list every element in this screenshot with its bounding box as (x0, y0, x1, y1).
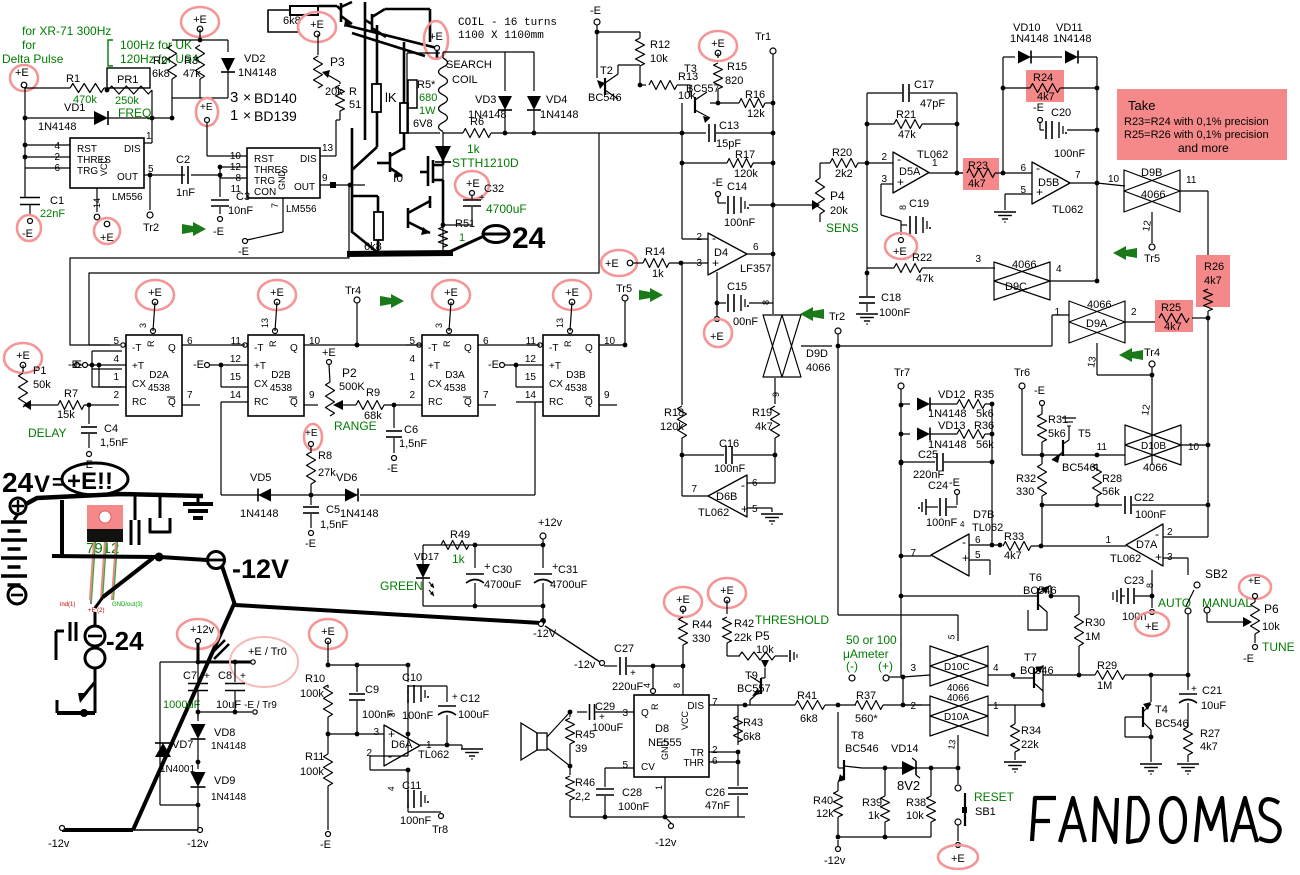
svg-text:1M: 1M (1085, 631, 1100, 643)
svg-text:-E: -E (590, 5, 601, 17)
svg-text:R40: R40 (813, 795, 833, 807)
svg-text:C10: C10 (402, 672, 422, 684)
svg-text:R34: R34 (1021, 725, 1041, 737)
svg-text:VD7: VD7 (172, 739, 193, 751)
svg-text:27k: 27k (318, 467, 336, 479)
svg-text:VD8: VD8 (214, 727, 235, 739)
svg-text:+E: +E (310, 19, 324, 31)
svg-text:C19: C19 (909, 198, 929, 210)
svg-text:7: 7 (712, 697, 718, 708)
svg-text:330: 330 (692, 633, 710, 645)
svg-text:Q: Q (290, 343, 298, 354)
svg-text:1nF: 1nF (176, 187, 195, 199)
svg-text:4: 4 (1056, 264, 1062, 275)
svg-text:1,5nF: 1,5nF (399, 438, 427, 450)
svg-text:-12V: -12V (232, 554, 289, 584)
svg-text:R: R (442, 340, 452, 347)
svg-text:+: + (452, 692, 458, 703)
svg-text:TRG: TRG (254, 176, 275, 187)
svg-text:2: 2 (1167, 527, 1173, 538)
svg-text:TL062: TL062 (698, 507, 729, 519)
svg-text:Q: Q (464, 343, 472, 354)
svg-text:Tr6: Tr6 (1014, 367, 1030, 379)
svg-text:Tr4: Tr4 (345, 285, 361, 297)
svg-text:12: 12 (525, 354, 537, 365)
svg-text:R8: R8 (318, 450, 332, 462)
svg-text:47nF: 47nF (705, 800, 730, 812)
svg-text:4066: 4066 (1012, 259, 1036, 271)
svg-text:4: 4 (54, 141, 60, 152)
svg-text:9: 9 (771, 392, 781, 397)
svg-text:12k: 12k (747, 108, 765, 120)
svg-text:+E: +E (270, 287, 284, 299)
svg-text:P6: P6 (1264, 602, 1279, 616)
svg-text:4538: 4538 (270, 383, 293, 394)
svg-text:1: 1 (146, 131, 152, 142)
svg-text:+E: +E (466, 178, 480, 190)
svg-text:D5B: D5B (1038, 177, 1059, 189)
svg-text:+E: +E (305, 428, 318, 439)
svg-text:SB2: SB2 (1205, 567, 1228, 581)
svg-text:1W: 1W (419, 105, 436, 117)
svg-text:100nF: 100nF (1135, 509, 1166, 521)
svg-text:1M: 1M (1097, 680, 1112, 692)
svg-text:R1: R1 (66, 73, 80, 85)
svg-text:+E: +E (444, 287, 458, 299)
svg-text:lK: lK (385, 90, 397, 105)
svg-text:120k: 120k (734, 168, 758, 180)
svg-text:100nF: 100nF (1054, 148, 1085, 160)
svg-text:T6: T6 (1029, 572, 1042, 584)
svg-text:-E: -E (712, 177, 723, 189)
svg-text:CX: CX (254, 379, 268, 390)
svg-text:+E / Tr0: +E / Tr0 (248, 646, 287, 658)
svg-text:D6B: D6B (716, 491, 737, 503)
svg-text:+E: +E (676, 594, 690, 606)
svg-text:TRG: TRG (77, 166, 98, 177)
svg-text:15: 15 (230, 372, 242, 383)
svg-text:4k7: 4k7 (1200, 741, 1218, 753)
svg-text:RC: RC (254, 397, 268, 408)
svg-text:-12v: -12v (48, 838, 70, 850)
svg-text:-12v: -12v (187, 838, 209, 850)
svg-text:1: 1 (1105, 535, 1111, 546)
svg-text:1k: 1k (452, 552, 466, 566)
svg-text:13: 13 (322, 143, 334, 154)
svg-text:Tr5: Tr5 (616, 283, 632, 295)
svg-text:8: 8 (672, 683, 682, 688)
svg-text:-E: -E (387, 463, 398, 475)
svg-text:4: 4 (642, 683, 652, 688)
svg-text:+12v: +12v (190, 624, 215, 636)
svg-text:VD13: VD13 (938, 420, 966, 432)
svg-text:VD1: VD1 (64, 102, 85, 114)
svg-text:00nF: 00nF (733, 316, 758, 328)
svg-text:+: + (240, 671, 246, 682)
svg-text:6k8: 6k8 (152, 68, 170, 80)
svg-text:BC546: BC546 (1062, 462, 1096, 474)
svg-text:+: + (1191, 684, 1197, 695)
svg-text:100nF: 100nF (714, 463, 745, 475)
svg-text:4700uF: 4700uF (550, 579, 588, 591)
svg-text:3: 3 (434, 323, 444, 328)
svg-text:P3: P3 (330, 55, 345, 69)
svg-text:R22: R22 (912, 252, 932, 264)
svg-text:THR: THR (683, 758, 704, 769)
svg-text:LM556: LM556 (286, 204, 317, 215)
svg-text:1,5nF: 1,5nF (320, 519, 348, 531)
svg-text:10: 10 (1188, 442, 1200, 453)
svg-text:R12: R12 (650, 39, 670, 51)
svg-text:×: × (243, 107, 251, 123)
svg-text:-E: -E (1034, 385, 1045, 397)
svg-text:CX: CX (549, 379, 563, 390)
svg-text:VD2: VD2 (244, 53, 265, 65)
svg-text:11: 11 (231, 184, 242, 195)
svg-text:10k: 10k (1262, 621, 1280, 633)
svg-text:100nF: 100nF (402, 710, 433, 722)
svg-text:-12v: -12v (655, 837, 677, 849)
svg-text:6: 6 (1020, 163, 1026, 174)
svg-text:-E / Tr9: -E / Tr9 (244, 700, 277, 711)
svg-text:22nF: 22nF (40, 208, 65, 220)
svg-text:1k: 1k (868, 810, 880, 822)
svg-text:C27: C27 (614, 643, 634, 655)
svg-text:Q: Q (290, 397, 298, 408)
svg-text:C25: C25 (918, 449, 938, 461)
svg-text:4066: 4066 (947, 693, 970, 704)
svg-text:4538: 4538 (148, 383, 171, 394)
svg-text:(-): (-) (846, 659, 858, 673)
svg-text:DIS: DIS (300, 154, 317, 165)
svg-text:R: R (650, 703, 660, 710)
svg-text:100k: 100k (300, 688, 324, 700)
svg-text:C32: C32 (484, 183, 504, 195)
svg-text:-T: -T (132, 343, 141, 354)
svg-text:1000uF: 1000uF (163, 699, 201, 711)
svg-text:COIL: COIL (452, 74, 478, 86)
svg-text:1: 1 (1054, 307, 1060, 318)
svg-text:68k: 68k (364, 410, 382, 422)
svg-text:1: 1 (230, 107, 238, 124)
svg-text:SB1: SB1 (975, 806, 996, 818)
svg-text:D8: D8 (655, 723, 669, 735)
svg-text:+E: +E (711, 38, 725, 50)
svg-text:10: 10 (230, 151, 242, 162)
svg-text:C23: C23 (1124, 575, 1144, 587)
svg-text:C2: C2 (176, 154, 190, 166)
svg-text:D7B: D7B (973, 509, 994, 521)
svg-text:-: - (741, 478, 745, 492)
svg-text:C8: C8 (218, 670, 232, 682)
svg-text:R30: R30 (1085, 617, 1105, 629)
svg-text:-E: -E (193, 359, 204, 371)
svg-text:13: 13 (946, 739, 958, 751)
svg-text:R38: R38 (906, 797, 926, 809)
svg-text:RESET: RESET (974, 790, 1015, 804)
svg-text:1N4148: 1N4148 (211, 792, 246, 803)
svg-text:SENS: SENS (826, 221, 859, 235)
svg-text:T4: T4 (1155, 704, 1168, 716)
svg-text:1: 1 (459, 232, 465, 244)
svg-text:Q: Q (585, 397, 593, 408)
svg-text:+E: +E (1145, 621, 1159, 633)
svg-text:1: 1 (654, 785, 664, 790)
svg-text:1: 1 (993, 701, 999, 712)
svg-text:RC: RC (132, 397, 146, 408)
svg-text:+E: +E (148, 287, 162, 299)
svg-text:-E: -E (71, 359, 82, 371)
svg-text:D5A: D5A (899, 166, 921, 178)
svg-text:P4: P4 (830, 189, 845, 203)
svg-text:VD14: VD14 (891, 743, 919, 755)
svg-text:BD140: BD140 (254, 90, 297, 106)
svg-text:100k: 100k (300, 766, 324, 778)
svg-text:×: × (243, 89, 251, 105)
svg-text:D9C: D9C (1005, 281, 1027, 293)
svg-text:LM556: LM556 (112, 192, 143, 203)
svg-text:VD9: VD9 (214, 775, 235, 787)
svg-text:-12v: -12v (574, 659, 596, 671)
svg-text:-E: -E (488, 359, 499, 371)
svg-text:R: R (349, 86, 357, 98)
svg-text:R36: R36 (974, 420, 994, 432)
svg-text:+E: +E (1248, 576, 1261, 587)
svg-text:BC557: BC557 (686, 83, 720, 95)
svg-text:3: 3 (138, 323, 148, 328)
svg-text:+T: +T (254, 361, 266, 372)
svg-text:R23=R24 with 0,1% precision: R23=R24 with 0,1% precision (1124, 116, 1269, 128)
svg-text:BC546: BC546 (1155, 718, 1189, 730)
svg-text:2: 2 (113, 390, 119, 401)
svg-text:3: 3 (975, 254, 981, 265)
svg-text:1N4148: 1N4148 (928, 408, 967, 420)
svg-text:1N4148: 1N4148 (38, 121, 77, 133)
svg-text:2k2: 2k2 (835, 168, 853, 180)
svg-text:V: V (34, 471, 50, 498)
svg-text:C13: C13 (719, 120, 739, 132)
svg-text:120k: 120k (660, 421, 684, 433)
svg-text:GND: GND (277, 170, 287, 191)
svg-text:39: 39 (575, 743, 587, 755)
svg-text:10nF: 10nF (228, 205, 253, 217)
svg-text:330: 330 (1016, 486, 1034, 498)
svg-text:R7: R7 (64, 388, 78, 400)
svg-text:4538: 4538 (565, 383, 588, 394)
svg-text:8: 8 (388, 712, 397, 717)
svg-text:D10B: D10B (1141, 441, 1166, 452)
svg-text:2: 2 (881, 152, 887, 163)
svg-text:OUT: OUT (117, 172, 138, 183)
svg-text:Q: Q (168, 343, 176, 354)
svg-text:C17: C17 (914, 79, 934, 91)
svg-text:4700uF: 4700uF (484, 579, 522, 591)
svg-text:5: 5 (752, 504, 758, 515)
svg-text:10uF: 10uF (1201, 700, 1226, 712)
svg-text:-24: -24 (106, 626, 144, 656)
svg-text:+: + (630, 668, 636, 679)
svg-text:BD139: BD139 (254, 108, 297, 124)
svg-text:3: 3 (230, 89, 238, 106)
svg-text:10: 10 (1108, 174, 1120, 185)
svg-text:P5: P5 (755, 629, 770, 643)
svg-text:VCC: VCC (680, 710, 690, 730)
svg-text:-: - (712, 231, 716, 245)
svg-text:R6: R6 (470, 116, 484, 128)
svg-text:R11: R11 (305, 751, 324, 763)
svg-text:11: 11 (1186, 175, 1197, 186)
svg-text:-E: -E (238, 246, 249, 258)
svg-text:R45: R45 (575, 729, 595, 741)
svg-text:R18: R18 (664, 407, 684, 419)
svg-text:-: - (1036, 161, 1040, 175)
svg-text:C1: C1 (50, 195, 64, 207)
svg-text:7: 7 (270, 203, 280, 208)
svg-text:100nF: 100nF (400, 815, 431, 827)
svg-text:50k: 50k (33, 379, 51, 391)
svg-text:Tr5: Tr5 (1144, 253, 1160, 265)
svg-text:THRESHOLD: THRESHOLD (755, 613, 829, 627)
svg-text:8: 8 (1145, 583, 1155, 588)
svg-text:6: 6 (753, 242, 759, 253)
svg-text:12k: 12k (816, 808, 834, 820)
svg-text:+E: +E (565, 287, 579, 299)
svg-text:4066: 4066 (1143, 462, 1167, 474)
svg-text:R19: R19 (752, 407, 772, 419)
svg-text:22k: 22k (1021, 739, 1039, 751)
svg-text:+E: +E (100, 232, 114, 244)
svg-text:VD17: VD17 (414, 552, 439, 563)
svg-text:1N4148: 1N4148 (238, 67, 277, 79)
svg-text:4066: 4066 (1141, 189, 1165, 201)
svg-text:Q: Q (585, 343, 593, 354)
svg-text:+E: +E (321, 626, 335, 638)
svg-text:Q: Q (641, 708, 649, 719)
svg-text:13: 13 (555, 318, 565, 328)
svg-text:47k: 47k (916, 273, 934, 285)
svg-text:100uF: 100uF (458, 709, 489, 721)
svg-text:D3A: D3A (445, 370, 465, 381)
svg-text:+E: +E (710, 331, 724, 343)
svg-text:C28: C28 (622, 787, 642, 799)
svg-text:C4: C4 (104, 423, 118, 435)
svg-text:3: 3 (881, 174, 887, 185)
svg-text:100nF: 100nF (724, 217, 755, 229)
svg-text:RC: RC (428, 397, 442, 408)
svg-text:RC: RC (549, 397, 563, 408)
svg-text:2: 2 (712, 745, 718, 756)
svg-text:3: 3 (910, 663, 916, 674)
svg-text:R16: R16 (745, 89, 765, 101)
svg-text:R15: R15 (727, 61, 747, 73)
svg-text:4: 4 (960, 520, 965, 529)
svg-text:C18: C18 (881, 292, 901, 304)
svg-text:C11: C11 (402, 780, 421, 792)
svg-text:Tr4: Tr4 (1144, 347, 1160, 359)
svg-text:GND/out(3): GND/out(3) (112, 602, 143, 608)
svg-text:4k7: 4k7 (1004, 550, 1022, 562)
svg-text:4066: 4066 (806, 362, 830, 374)
svg-text:R51: R51 (455, 218, 475, 230)
svg-text:Tr8: Tr8 (432, 824, 448, 836)
svg-text:+: + (484, 561, 490, 573)
svg-text:-E: -E (1243, 653, 1254, 665)
svg-text:D10C: D10C (944, 662, 970, 673)
svg-text:R: R (563, 340, 573, 347)
svg-text:R27: R27 (1200, 728, 1220, 740)
svg-text:R29: R29 (1097, 660, 1117, 672)
svg-text:P1: P1 (33, 365, 46, 377)
svg-text:R10: R10 (305, 673, 325, 685)
svg-text:2: 2 (696, 232, 702, 243)
svg-text:I0: I0 (393, 171, 403, 185)
svg-text:7: 7 (1075, 170, 1081, 181)
svg-text:C12: C12 (460, 693, 480, 705)
svg-text:100nF: 100nF (879, 307, 910, 319)
svg-text:D4: D4 (714, 247, 728, 259)
svg-text:T5: T5 (1078, 428, 1091, 440)
svg-text:BC557: BC557 (737, 683, 771, 695)
svg-text:VD4: VD4 (546, 94, 567, 106)
svg-text:for: for (22, 38, 36, 52)
svg-text:-: - (1155, 527, 1159, 541)
svg-text:+: + (479, 193, 485, 204)
svg-text:-12v: -12v (824, 855, 846, 867)
svg-text:DELAY: DELAY (28, 426, 66, 440)
svg-text:100nF: 100nF (926, 517, 957, 529)
svg-text:2,2: 2,2 (575, 791, 590, 803)
svg-text:R3: R3 (184, 55, 198, 67)
svg-text:5k6: 5k6 (1048, 428, 1066, 440)
svg-text:TL062: TL062 (1052, 204, 1083, 216)
svg-text:15: 15 (525, 372, 537, 383)
svg-text:4: 4 (113, 354, 119, 365)
svg-text:7: 7 (483, 390, 489, 401)
svg-text:Take: Take (1128, 98, 1155, 113)
svg-text:R21: R21 (896, 109, 916, 121)
svg-text:CX: CX (428, 379, 442, 390)
svg-text:VD5: VD5 (250, 472, 271, 484)
svg-text:R35: R35 (974, 389, 994, 401)
svg-text:24: 24 (512, 222, 546, 255)
svg-text:D9A: D9A (1086, 318, 1108, 330)
svg-text:9: 9 (309, 390, 315, 401)
svg-text:R5*: R5* (417, 79, 436, 91)
svg-text:Q: Q (464, 397, 472, 408)
svg-text:1k: 1k (467, 142, 481, 156)
svg-text:C24: C24 (928, 480, 948, 492)
svg-text:D9B: D9B (1141, 167, 1162, 179)
svg-text:4k7: 4k7 (755, 421, 773, 433)
svg-text:12: 12 (230, 354, 242, 365)
svg-text:47k: 47k (183, 68, 201, 80)
svg-text:5: 5 (975, 550, 981, 561)
svg-text:R25: R25 (1161, 302, 1181, 314)
svg-text:4k7: 4k7 (968, 178, 986, 190)
svg-text:CV: CV (641, 762, 655, 773)
svg-text:47k: 47k (898, 129, 916, 141)
svg-text:+T: +T (549, 361, 561, 372)
svg-text:20k: 20k (325, 86, 343, 98)
svg-text:4700uF: 4700uF (486, 202, 527, 216)
svg-text:Tr2: Tr2 (829, 311, 845, 323)
svg-text:Tr2: Tr2 (143, 222, 159, 234)
svg-text:47pF: 47pF (920, 98, 945, 110)
svg-text:-E: -E (22, 228, 33, 240)
svg-text:4066: 4066 (1087, 299, 1111, 311)
svg-text:GREEN: GREEN (380, 579, 423, 593)
svg-text:VD3: VD3 (475, 94, 496, 106)
